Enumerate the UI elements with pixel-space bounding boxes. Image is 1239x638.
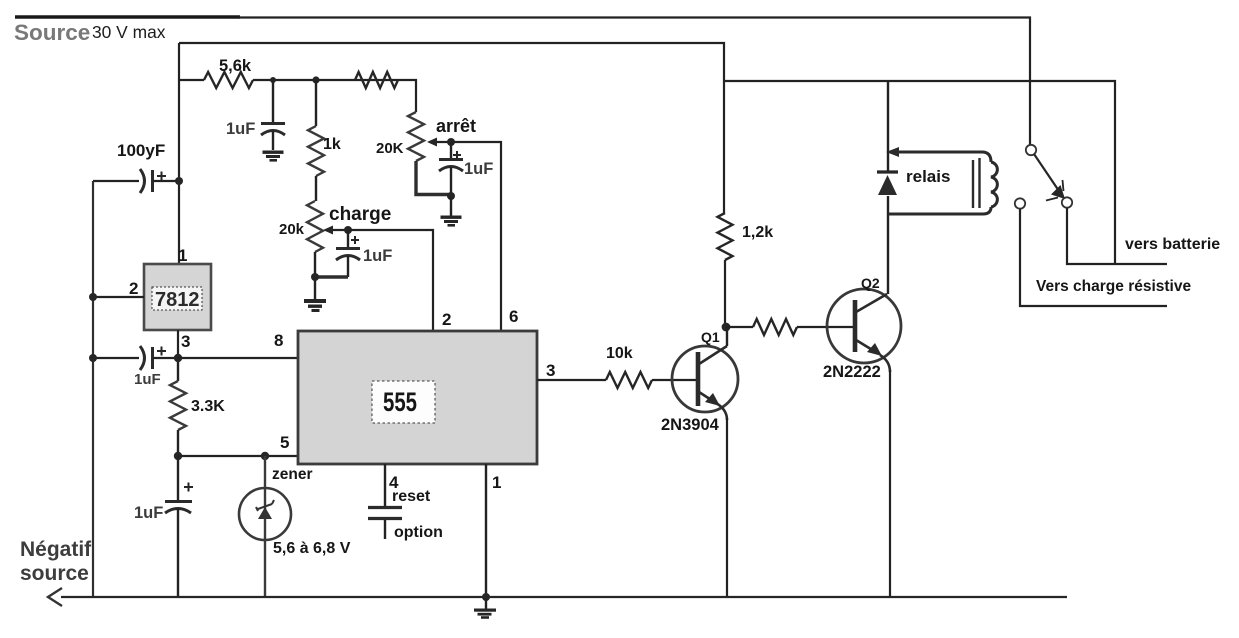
relay coil relais — [886, 147, 997, 214]
svg-text:1uF: 1uF — [134, 504, 163, 522]
svg-text:5,6 à 6,8 V: 5,6 à 6,8 V — [273, 540, 351, 557]
diode zener 5,6 a 6,8 V — [239, 456, 351, 597]
svg-text:7812: 7812 — [155, 289, 200, 311]
svg-text:5,6k: 5,6k — [219, 57, 252, 75]
svg-text:option: option — [394, 524, 443, 541]
ground below 1uF top — [263, 151, 284, 162]
capacitor 1uF at 7812 output — [93, 346, 178, 388]
pin 3 of 7812 — [178, 330, 190, 358]
wire Q1 emitter down — [726, 418, 728, 597]
wire pin3 to 555 pin 8 — [178, 357, 298, 359]
wire left rail — [92, 181, 94, 597]
wire 7812 input vertical — [178, 43, 180, 264]
switch common contact — [1026, 145, 1036, 155]
wire to 555 pin 5 — [178, 455, 298, 457]
node Negatif source label — [20, 538, 92, 585]
svg-text:charge: charge — [329, 204, 391, 225]
svg-text:Q1: Q1 — [701, 329, 720, 345]
node junction rail 1uF — [89, 354, 97, 362]
node junction zener top — [261, 452, 269, 460]
wire bottom negative rail — [61, 596, 1067, 598]
svg-text:20K: 20K — [376, 140, 404, 157]
svg-text:5: 5 — [280, 433, 289, 452]
capacitor 1uF arret — [439, 142, 493, 196]
switch throw contact battery — [1062, 197, 1072, 207]
svg-text:1uF: 1uF — [363, 247, 392, 265]
pin 2 of 555 — [442, 310, 451, 329]
resistor 1,2k — [718, 213, 774, 327]
svg-text:Négatif: Négatif — [20, 538, 92, 561]
wire charge cap bottom — [315, 275, 348, 278]
svg-text:30 V max: 30 V max — [92, 22, 166, 42]
wire Q2 emitter down — [889, 370, 891, 597]
node junction 7812 pin3 — [174, 354, 182, 362]
svg-text:reset: reset — [392, 488, 431, 505]
capacitor 1uF bottom left — [134, 456, 193, 597]
regulator U2 7812 — [144, 264, 211, 330]
svg-text:1uF: 1uF — [226, 120, 255, 138]
wire relay supply vertical — [887, 81, 889, 171]
svg-text:2N3904: 2N3904 — [661, 416, 720, 434]
pin 5 of 555 — [280, 433, 289, 452]
wire arret wiper to pin 6 — [451, 142, 501, 331]
pin 2 of 7812 — [93, 279, 144, 298]
node junction arret bottom — [447, 192, 455, 200]
wire 5.6k row — [179, 80, 416, 112]
node vers batterie label — [1125, 236, 1220, 253]
node junction rail pin2 — [89, 293, 97, 301]
svg-text:6: 6 — [509, 307, 518, 326]
wire pin 1 to ground — [485, 464, 487, 597]
wire top positive source rail — [15, 17, 1030, 145]
svg-text:1: 1 — [178, 246, 187, 265]
svg-text:2N2222: 2N2222 — [823, 363, 881, 381]
svg-text:20k: 20k — [279, 221, 305, 238]
transistor Q2 2N2222 — [823, 275, 901, 381]
svg-text:100yF: 100yF — [117, 141, 165, 160]
node junction Q1 collector — [722, 323, 731, 332]
svg-text:1k: 1k — [323, 136, 341, 153]
node Vers charge resistive label — [1036, 278, 1191, 295]
svg-text:1uF: 1uF — [134, 371, 161, 388]
svg-text:1: 1 — [492, 473, 501, 492]
resistor 3.3K — [170, 358, 225, 456]
node negative source arrow — [48, 588, 62, 606]
svg-text:555: 555 — [383, 387, 417, 417]
wire vers batterie — [1067, 208, 1167, 264]
switch contact resistive load — [1015, 198, 1025, 208]
pin 8 of 555 — [274, 331, 283, 350]
pin 6 of 555 — [509, 307, 518, 326]
svg-text:2: 2 — [129, 279, 138, 298]
pin 3 of 555 — [546, 361, 555, 380]
svg-text:1uF: 1uF — [464, 160, 493, 178]
ground below charge — [304, 299, 326, 312]
resistor 10k — [606, 345, 696, 388]
svg-text:3.3K: 3.3K — [191, 398, 225, 415]
svg-text:Q2: Q2 — [861, 275, 880, 291]
resistor unlabeled top — [355, 72, 398, 88]
capacitor reset option on pin 4 — [368, 464, 443, 541]
svg-text:source: source — [20, 562, 89, 585]
node junction charge bottom — [311, 273, 319, 281]
pin 1 of 555 — [492, 473, 501, 492]
ground main — [474, 597, 496, 619]
resistor 1k — [308, 80, 341, 201]
capacitor 100yF — [93, 141, 179, 193]
potentiometer 20K arret — [376, 112, 476, 195]
svg-text:relais: relais — [906, 167, 950, 186]
node junction charge wiper — [344, 226, 352, 234]
svg-text:1,2k: 1,2k — [742, 224, 773, 241]
capacitor 1uF charge — [336, 230, 392, 277]
ground below arret — [441, 196, 462, 227]
wire vers charge resistive — [1020, 209, 1167, 306]
wire branch rail to relay and switch — [724, 81, 1115, 264]
node junction arret wiper — [447, 138, 455, 146]
capacitor 1uF top — [226, 80, 285, 150]
pin 4 of 555 — [389, 473, 399, 492]
node junction 100yF right — [175, 177, 183, 185]
svg-text:arrêt: arrêt — [436, 116, 476, 136]
wire charge wiper to pin 2 — [348, 230, 433, 331]
wire second rail from 7812 input — [179, 43, 724, 213]
svg-text:Source: Source — [14, 20, 90, 45]
svg-text:vers batterie: vers batterie — [1125, 236, 1220, 253]
wire Q1 collector — [726, 327, 728, 346]
svg-text:3: 3 — [546, 361, 555, 380]
svg-text:8: 8 — [274, 331, 283, 350]
svg-text:10k: 10k — [606, 345, 633, 362]
node junction 3.3K bottom — [174, 452, 182, 460]
node junction dot cap branch — [270, 77, 276, 83]
diode flyback — [877, 172, 898, 195]
potentiometer 20k charge — [279, 201, 391, 299]
svg-text:Vers charge résistive: Vers charge résistive — [1036, 278, 1191, 295]
svg-text:2: 2 — [442, 310, 451, 329]
wire pin 3 output — [537, 379, 606, 381]
pin 1 of 7812 — [178, 246, 187, 265]
node junction dot 1k branch — [312, 76, 319, 83]
node Source label — [14, 20, 166, 45]
svg-text:zener: zener — [272, 466, 313, 483]
node junction pin1 bottom — [482, 593, 490, 601]
IC U1 555 — [298, 331, 537, 464]
wire Q2 collector — [887, 196, 889, 294]
resistor Q2 base — [726, 319, 853, 335]
transistor Q1 2N3904 — [661, 329, 738, 434]
switch blade arrow — [1034, 154, 1065, 201]
resistor 5,6k — [204, 57, 253, 88]
svg-text:3: 3 — [181, 332, 190, 351]
